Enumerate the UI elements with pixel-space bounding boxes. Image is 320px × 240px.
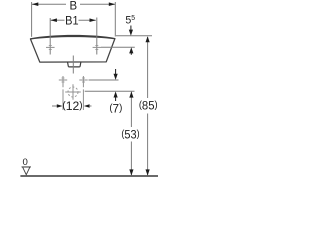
floor line (20, 175, 158, 177)
fixing hole cross left (46, 45, 55, 49)
drain tab (68, 62, 81, 67)
extension line B right (114, 2, 116, 37)
dimension 12 line right (89, 105, 91, 107)
extension line B1 right / fixing hole centerline right (96, 18, 98, 55)
dimension B1 line (51, 19, 96, 21)
drain trap circle (68, 87, 78, 97)
datum symbol (22, 166, 32, 168)
dimension 12 right arrow (left pointing) (84, 104, 90, 108)
dimension 5 lower arrow (up) (129, 47, 133, 53)
dimension 53 line (130, 92, 132, 127)
dimension 85 bottom arrow (down) (146, 169, 150, 175)
dimension 53 bottom arrow (down) (129, 169, 133, 175)
svg-text:(7): (7) (109, 101, 122, 115)
dimension B arrows (32, 2, 38, 6)
reference line supply level (for 7 dim) (89, 79, 119, 81)
extension line B left (31, 2, 33, 37)
washbasin outline (30, 39, 115, 63)
supply cross left (59, 78, 67, 82)
drain centerline horizontal (65, 91, 81, 93)
dimension B1 arrows (51, 18, 57, 22)
dimension 5 upper arrow (down) (130, 26, 132, 31)
svg-text:B1: B1 (65, 14, 78, 28)
svg-text:(53): (53) (121, 128, 139, 142)
reference line fixing holes level (for 5 dim) (101, 46, 135, 48)
extension line B1 left / fixing hole centerline left (49, 18, 51, 55)
reference line drain level (for 7 and 53 dims) (85, 90, 135, 92)
washbasin rim top band (30, 35, 115, 40)
dimension B line (32, 3, 115, 5)
fixing hole cross right (93, 45, 101, 49)
dimension 85 line (147, 37, 149, 98)
dimension 12 line left (52, 105, 57, 107)
svg-text:(12): (12) (62, 99, 82, 113)
dimension 85 top arrow (up) (146, 36, 150, 42)
supply cross left vertical / (12) extension left (62, 76, 64, 110)
dimension 7 lower arrow (up) (114, 91, 118, 97)
drain centerline vertical (72, 56, 74, 74)
dimension 7 upper arrow (down) (115, 69, 117, 75)
svg-text:B: B (69, 0, 77, 13)
dimension 53 top arrow (up) (129, 92, 133, 98)
dimension 12 left arrow (right pointing) (57, 104, 63, 108)
supply cross right vertical / (12) extension right (82, 76, 84, 110)
svg-text:(85): (85) (139, 99, 158, 112)
supply cross right (79, 78, 87, 82)
reference line rim top (for 5 and 85 dims) (116, 35, 152, 37)
